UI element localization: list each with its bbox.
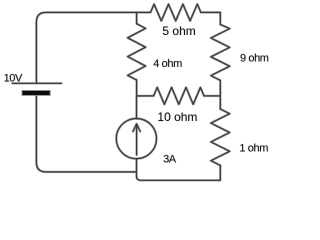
wire left vertical up + top wire across to 5 ohm resistor bbox=[36, 12, 150, 83]
wire 4 ohm bottom lead down to node A bbox=[136, 80, 138, 96]
battery bottom plate (short thick, negative) bbox=[22, 91, 50, 96]
svg-text:4 ohm: 4 ohm bbox=[153, 58, 182, 70]
wire 10 ohm right lead to node B bbox=[204, 95, 220, 97]
resistor 10 ohm (horizontal zigzag) bbox=[154, 87, 204, 104]
wire bottom run: current source bottom to bottom-right corner bbox=[137, 159, 221, 181]
current source circle bbox=[116, 119, 156, 159]
wire 1 ohm bottom lead to bottom-right corner bbox=[219, 165, 221, 180]
svg-text:10 ohm: 10 ohm bbox=[157, 110, 197, 124]
wire bottom-left: battery negative down, corner, right to current source bbox=[36, 96, 136, 172]
resistor 4 ohm (vertical zigzag) bbox=[128, 24, 146, 80]
resistor 1 ohm (vertical zigzag) bbox=[211, 109, 230, 165]
resistor 9 ohm (vertical zigzag) bbox=[211, 25, 230, 81]
svg-text:1 ohm: 1 ohm bbox=[239, 143, 268, 155]
resistor 5 ohm (horizontal zigzag) bbox=[151, 4, 201, 21]
wire 4 ohm top lead from top wire bbox=[136, 12, 138, 23]
svg-text:9 ohm: 9 ohm bbox=[240, 53, 269, 65]
wire current source top lead up to node A bbox=[136, 96, 138, 119]
wire under-stroke halo layer (soft edges of all conductors) bbox=[12, 4, 229, 180]
svg-text:3A: 3A bbox=[163, 154, 177, 166]
wire 9 ohm bottom lead down to node B bbox=[219, 80, 221, 96]
battery top plate (long thin, positive) bbox=[12, 82, 61, 84]
current source arrow head bbox=[133, 124, 140, 132]
wire top-right lead to 9 ohm column bbox=[201, 12, 220, 24]
current source arrow shaft bbox=[136, 124, 138, 155]
svg-text:10V: 10V bbox=[4, 72, 23, 84]
svg-text:5 ohm: 5 ohm bbox=[162, 24, 195, 38]
wire node A to 10 ohm left lead bbox=[137, 95, 154, 97]
wire node B down to 1 ohm bbox=[219, 96, 221, 109]
